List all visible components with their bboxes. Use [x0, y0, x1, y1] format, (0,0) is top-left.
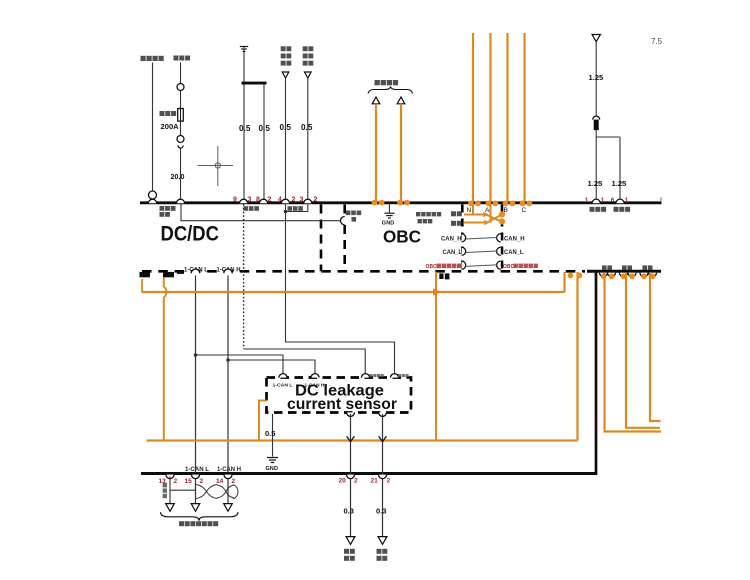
- wire: sensor orange supply: [259, 401, 267, 441]
- component DC leakage current sensor box: [267, 378, 412, 413]
- label: interior ground 车内搭铁: [375, 80, 399, 85]
- wire: 12V output to charge connector: [181, 204, 340, 221]
- component DC/DC label: [161, 222, 220, 246]
- brace under harness: [161, 512, 239, 520]
- svg-text:1.25: 1.25: [588, 179, 604, 188]
- wire: phase C to port: [650, 273, 661, 421]
- pin numbers DC/DC connector: [233, 197, 318, 204]
- svg-text:0.5: 0.5: [301, 123, 313, 132]
- svg-text:0.3: 0.3: [376, 507, 386, 516]
- svg-text:0.5: 0.5: [239, 124, 251, 133]
- port phase B terminals: [620, 265, 637, 279]
- wire: DC/DC pin 9 ground 0.5: [239, 47, 251, 204]
- twisted pair symbol: [196, 485, 238, 500]
- wire: dotted CAN harness wire: [243, 204, 245, 349]
- svg-text:C: C: [522, 207, 527, 214]
- label: pre-charge output: [244, 206, 259, 211]
- wire: battery feed lower 20.0: [171, 121, 185, 203]
- svg-text:2: 2: [354, 478, 358, 485]
- harness dashed border: [142, 270, 585, 273]
- wire: orange branch left with hop: [164, 278, 167, 441]
- wire: AC phase N: [467, 33, 481, 214]
- fuse F1 200A: [160, 109, 184, 131]
- svg-text:OBC: OBC: [503, 264, 515, 270]
- harness arrows bottom: [166, 504, 233, 512]
- wire: sensor output pin 21: [371, 414, 391, 561]
- svg-text:1.25: 1.25: [589, 73, 605, 82]
- wire: AC phase B: [503, 33, 516, 214]
- wire: 1-CAN L vertical: [184, 266, 208, 503]
- wire: DC/DC pin 8 0.5: [259, 85, 271, 204]
- svg-text:DC/DC: DC/DC: [161, 222, 220, 246]
- svg-text:GND: GND: [266, 466, 279, 472]
- svg-text:0.5: 0.5: [259, 124, 271, 133]
- svg-text:1.25: 1.25: [612, 179, 628, 188]
- svg-text:CAN_H: CAN_H: [504, 235, 525, 242]
- svg-text:7.5: 7.5: [651, 37, 663, 46]
- svg-text:2: 2: [292, 197, 296, 204]
- bottom connector pin numbers: [159, 478, 236, 485]
- svg-text:GND: GND: [382, 220, 395, 226]
- svg-text:1-CAN L: 1-CAN L: [185, 466, 209, 473]
- wire: 1-CAN H vertical: [217, 266, 241, 503]
- crosshair reference mark: [198, 146, 234, 186]
- svg-text:N: N: [467, 207, 472, 214]
- label: 12V charge: [346, 211, 361, 222]
- svg-text:0.3: 0.3: [344, 507, 354, 516]
- svg-text:4: 4: [278, 197, 282, 204]
- label: instrument feed 1: [590, 207, 607, 212]
- svg-text:CAN_H: CAN_H: [441, 235, 462, 242]
- wire: interior ground arrow 2: [397, 97, 410, 206]
- wire: main 12V bus: [140, 198, 662, 203]
- bottom connector labels: [185, 466, 241, 473]
- OBC internal ground GND: [382, 204, 395, 226]
- svg-text:1: 1: [625, 197, 629, 204]
- wire: DC/DC pin to sensor pin 4: [286, 204, 395, 374]
- svg-text:CAN_L: CAN_L: [504, 249, 524, 256]
- wire: orange bus lower: [147, 439, 578, 441]
- svg-text:3: 3: [248, 197, 252, 204]
- wire: instrument feed branch: [596, 137, 627, 203]
- sensor pin bumps top: [273, 374, 409, 389]
- wire: A phase crossover: [464, 204, 505, 225]
- label: balance use: [163, 483, 167, 498]
- wire: battery feed (蓄电池) with fuse 200A: [174, 56, 191, 109]
- connector bump 12V charge: [341, 217, 345, 225]
- wire: DC/DC pin 4 0.5 to RC module 1: [280, 46, 292, 203]
- wire: DC/DC pin 3 0.5 to RC module 2: [301, 46, 313, 203]
- link CAN_L: [443, 247, 524, 256]
- port phase A terminals: [600, 265, 616, 279]
- svg-text:200A: 200A: [161, 122, 180, 131]
- svg-text:15: 15: [185, 478, 193, 485]
- annotation 7.5: [651, 37, 663, 46]
- svg-text:CAN_L: CAN_L: [443, 249, 463, 256]
- svg-text:1-CAN L: 1-CAN L: [273, 383, 293, 389]
- charge port phase segment: [587, 270, 661, 273]
- bold marks at port: [439, 273, 449, 279]
- port phase C terminals: [640, 265, 657, 279]
- OBC box left edge: [343, 205, 346, 272]
- svg-text:1: 1: [601, 197, 605, 204]
- wire: sensor output pin 20: [339, 414, 359, 561]
- svg-text:14: 14: [216, 478, 224, 485]
- wire: AC phase C: [520, 33, 533, 214]
- link OBC charge wake signal: [426, 261, 538, 270]
- label: interior ground note: [416, 212, 441, 223]
- svg-text:6: 6: [611, 197, 615, 204]
- wire: phase A to port: [605, 273, 662, 432]
- link CAN_H: [441, 234, 525, 243]
- bottom connector bumps: [166, 475, 232, 479]
- OBC connector wall right: [501, 205, 504, 272]
- svg-text:8: 8: [256, 197, 260, 204]
- wire: dotted wire to sensor pin 3: [244, 349, 366, 374]
- wire: ground pair drop: [170, 477, 196, 504]
- svg-text:9: 9: [233, 197, 237, 204]
- wire: AC phase A: [485, 33, 498, 214]
- wire: N phase crossover: [464, 204, 505, 225]
- wire: instrument feed main: [588, 35, 605, 204]
- label: instrument feed 2: [614, 207, 631, 212]
- OBC connector wall left: [461, 205, 464, 272]
- svg-text:A: A: [485, 207, 490, 214]
- wire: orange link mid: [433, 272, 441, 441]
- svg-text:current sensor: current sensor: [287, 396, 397, 413]
- wire: 1-CAN L branch to sensor: [196, 355, 284, 374]
- svg-text:2: 2: [314, 197, 318, 204]
- svg-text:2: 2: [387, 478, 391, 485]
- sensor pin bumps bottom: [347, 412, 387, 416]
- svg-text:0.5: 0.5: [265, 429, 275, 438]
- wire: phase B to port: [626, 273, 660, 428]
- label: N phase: [451, 211, 462, 216]
- brace over ground arrows: [368, 87, 413, 94]
- label: 12V battery feed: [160, 206, 176, 217]
- svg-text:0.5: 0.5: [280, 123, 292, 132]
- svg-text:2: 2: [232, 478, 236, 485]
- svg-text:2: 2: [200, 478, 204, 485]
- svg-text:20.0: 20.0: [171, 172, 185, 181]
- wire: charge wake pin jumper: [284, 204, 308, 213]
- label: A phase: [451, 221, 462, 226]
- svg-text:OBC: OBC: [383, 227, 421, 247]
- svg-text:2: 2: [174, 478, 178, 485]
- svg-text:1: 1: [585, 197, 589, 204]
- label: vehicle low-speed power: [179, 521, 218, 526]
- wire: orange bus upper: [142, 279, 565, 292]
- DC/DC box right edge: [320, 205, 323, 272]
- label: charge wake: [288, 206, 303, 211]
- svg-text:20: 20: [339, 478, 347, 485]
- svg-text:OBC: OBC: [426, 264, 438, 270]
- svg-text:21: 21: [371, 478, 379, 485]
- instrument feed pins: [585, 197, 629, 204]
- wire: sensor ground 0.5: [265, 414, 278, 472]
- wire: external body ground (外部搭铁): [141, 56, 164, 204]
- wire: 1-CAN H branch to sensor: [228, 360, 315, 374]
- wire: orange riser to port lower: [577, 272, 583, 441]
- component OBC label: [383, 227, 421, 247]
- wire: bottom connector bus: [141, 472, 597, 475]
- wire: interior ground arrow 1: [372, 97, 385, 206]
- svg-text:1-CAN H: 1-CAN H: [217, 466, 241, 473]
- wire: orange riser to port upper: [565, 272, 574, 292]
- splice bar: [242, 82, 267, 85]
- bold corner dashes: [140, 271, 185, 277]
- svg-text:2: 2: [268, 197, 272, 204]
- svg-text:1-CAN H: 1-CAN H: [305, 383, 325, 389]
- wire: OBC output trunk: [595, 272, 598, 475]
- svg-text:3: 3: [300, 197, 304, 204]
